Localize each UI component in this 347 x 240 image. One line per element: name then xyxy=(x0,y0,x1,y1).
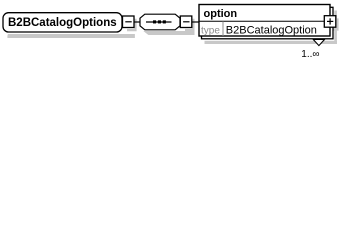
element option shadow bottom band xyxy=(205,41,337,44)
derived-type triangle marker xyxy=(313,39,324,45)
expand button 2 (collapse, minus) xyxy=(180,16,192,28)
element B2BCatalogOptions box xyxy=(3,13,122,32)
element option front box xyxy=(199,5,330,37)
sequence symbol dot 1 xyxy=(153,20,156,23)
sequence compositor shadow xyxy=(144,31,195,35)
element option stacked back box (multi-occurrence) xyxy=(202,7,334,39)
type row separator xyxy=(222,21,224,36)
expand button 1 (collapse, minus) xyxy=(123,16,135,28)
element B2BCatalogOptions shadow xyxy=(7,34,134,38)
element option shadow right band xyxy=(334,11,337,45)
expand button 3 shadow xyxy=(327,18,339,30)
svg-text:B2BCatalogOption: B2BCatalogOption xyxy=(226,25,317,37)
expand button 2 shadow xyxy=(185,19,195,32)
svg-text:type: type xyxy=(201,26,220,37)
element option name row separator xyxy=(199,20,330,22)
sequence symbol line xyxy=(146,21,172,23)
svg-text:option: option xyxy=(204,8,238,20)
sequence symbol dot 3 xyxy=(163,20,166,23)
sequence symbol dot 2 xyxy=(158,20,161,23)
expand button 1 shadow xyxy=(127,19,137,32)
sequence compositor octagon xyxy=(140,14,180,30)
svg-text:1..∞: 1..∞ xyxy=(301,49,319,60)
wire from button2 to element option xyxy=(192,21,200,23)
expand button 3 (expand, plus) xyxy=(324,16,336,28)
svg-text:B2BCatalogOptions: B2BCatalogOptions xyxy=(8,17,117,29)
wire from button1 to sequence compositor xyxy=(133,21,141,23)
